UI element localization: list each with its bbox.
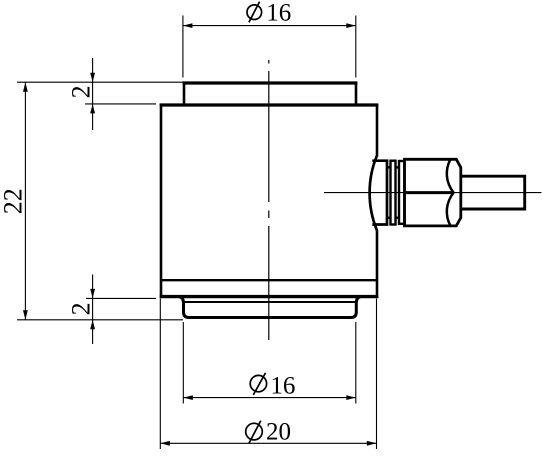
bottom cap groove line [185,301,355,303]
dim Ø16 bottom: extension lines [182,322,184,404]
dim Ø20: right arrow [367,441,377,446]
body lower step line [161,279,377,281]
dim Ø20: left arrow [160,441,170,446]
dim Ø16 bottom: dimension line [183,397,355,399]
dim Ø16 top: right arrow [346,23,356,28]
connector neck 2 [396,167,400,217]
cable stub [461,176,525,209]
bottom cap (Ø16 boss) [179,297,361,318]
svg-text:2: 2 [67,85,96,98]
dim Ø16 bottom: left arrow [183,395,193,400]
dim 22: dimension line [24,82,26,320]
svg-text:20: 20 [266,419,291,446]
svg-text:22: 22 [0,188,28,214]
connector ring 1 [391,161,396,225]
dim 2 top: lower leader with up arrow [90,104,95,114]
svg-text:2: 2 [67,302,96,315]
dim Ø20: dimension line [160,442,376,444]
connector neck 1 [387,167,391,217]
dim 2 bottom: lower leader with up arrow [90,320,95,330]
hex nut lower chamfer arc [447,193,454,226]
hex nut mid vertex line [405,191,454,194]
vertical centerline [268,60,270,340]
horizontal centerline (connector axis) [324,192,542,194]
dim 2 top: extension line (body top level) [85,103,156,105]
dim 2 bottom: extension line (body bottom level) [86,297,156,299]
dim Ø16 bottom: diameter symbol [250,375,266,391]
hex nut body [405,159,461,226]
dim Ø16 top: dimension line [183,25,356,27]
svg-text:16: 16 [266,0,291,27]
hex nut upper chamfer arc [447,160,454,193]
dim Ø16 top: diameter symbol [247,5,262,20]
dim Ø16 top: extension lines [182,16,184,78]
dim 2 bottom: upper leader with down arrow [92,275,94,345]
dim 2 top: upper leader with down arrow [92,58,94,130]
dim 22: top arrow [23,82,28,92]
top cap (Ø16 boss) [183,82,358,105]
dim Ø16 bottom: right arrow [346,395,356,400]
dim 22: bottom arrow [23,310,28,320]
dim Ø20: extension lines [159,299,161,450]
svg-text:16: 16 [270,372,295,399]
dim Ø16 top: left arrow [183,23,193,28]
main body (Ø20 cylinder) [160,104,379,298]
dim Ø20: diameter symbol [246,423,263,440]
dim 22: extension lines [17,81,184,83]
connector ring 2 [399,161,405,224]
connector weld dome on body edge [370,156,377,231]
